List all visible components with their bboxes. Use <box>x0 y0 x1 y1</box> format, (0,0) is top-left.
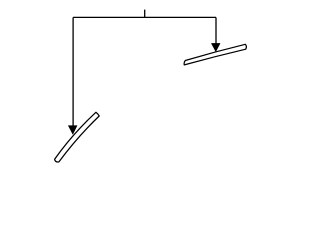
arrowhead on left drop line <box>68 126 77 135</box>
wire: right vertical drop line <box>215 17 217 44</box>
curved plate right (mirror) <box>184 44 246 65</box>
tick: midpoint stub on bracket <box>144 10 146 18</box>
wire: top horizontal bracket line <box>73 16 216 18</box>
wire: left vertical drop line <box>72 17 74 126</box>
arrowhead on right drop line <box>211 43 220 51</box>
curved plate left (mirror) <box>55 112 100 162</box>
